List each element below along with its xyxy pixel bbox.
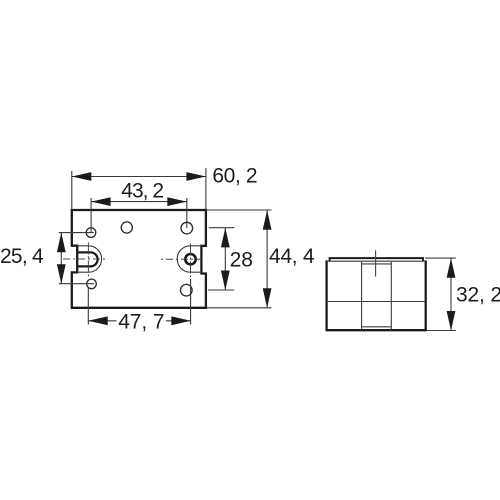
side view divider left <box>361 262 363 330</box>
dimension 43,2 <box>90 198 92 233</box>
svg-text:47, 7: 47, 7 <box>118 311 164 334</box>
body outline main view <box>72 210 206 308</box>
svg-text:28: 28 <box>230 249 253 272</box>
hole top-middle <box>121 222 132 233</box>
svg-text:44, 4: 44, 4 <box>269 245 315 268</box>
arrow 47,7 left <box>88 316 108 325</box>
arrow 28 down <box>221 271 230 291</box>
centerline right ear horizontal <box>161 258 202 260</box>
side view body bottom edge <box>326 329 427 331</box>
arrow 44,4 up <box>263 210 272 230</box>
hole top-left <box>86 228 96 238</box>
side view lid <box>330 258 423 261</box>
hole bottom-right <box>181 284 193 296</box>
side view horizontal divider <box>327 301 426 303</box>
extension line 47,7 left <box>87 289 89 325</box>
side view body left edge <box>325 260 327 330</box>
svg-text:25, 4: 25, 4 <box>0 245 44 268</box>
arrow 43,2 right <box>167 197 187 206</box>
svg-text:60, 2: 60, 2 <box>212 165 257 188</box>
right ear hole ring <box>185 254 195 264</box>
centerline right ear vertical <box>190 244 192 278</box>
svg-text:32, 2: 32, 2 <box>456 284 500 307</box>
arrow 25,4 up <box>57 233 66 253</box>
side view middle top <box>362 263 392 265</box>
dimension 44,4 <box>207 209 272 211</box>
arrow 47,7 right <box>171 316 191 325</box>
side view body right edge <box>425 260 427 330</box>
left ear boss <box>77 246 101 272</box>
arrow 44,4 down <box>263 288 272 308</box>
extension line 47,7 right <box>190 279 192 325</box>
centerline left ear horizontal <box>63 258 107 260</box>
centerline left ear vertical <box>87 242 89 277</box>
right ear boss <box>177 246 201 272</box>
arrow 32,2 down <box>447 311 456 331</box>
hole bottom-left <box>87 279 97 289</box>
side view divider right <box>390 262 392 330</box>
arrow 32,2 up <box>447 258 456 278</box>
svg-text:43, 2: 43, 2 <box>121 179 163 202</box>
side view bottom middle lip <box>362 326 392 328</box>
hole top-right <box>181 222 193 234</box>
side view body top edge <box>327 260 426 262</box>
arrow 25,4 down <box>57 264 66 284</box>
arrow 60,2 left <box>72 172 92 181</box>
dimension 60,2 <box>71 171 73 209</box>
dimension 28 <box>209 227 235 229</box>
side view centerline <box>375 250 377 276</box>
arrow 28 up <box>221 228 230 248</box>
dimension 25,4 <box>59 232 94 234</box>
dimension 47,7 <box>88 320 116 322</box>
arrow 43,2 left <box>91 197 111 206</box>
arrow 60,2 right <box>186 172 206 181</box>
dimension 32,2 <box>425 257 456 259</box>
left ear slot <box>77 252 97 266</box>
